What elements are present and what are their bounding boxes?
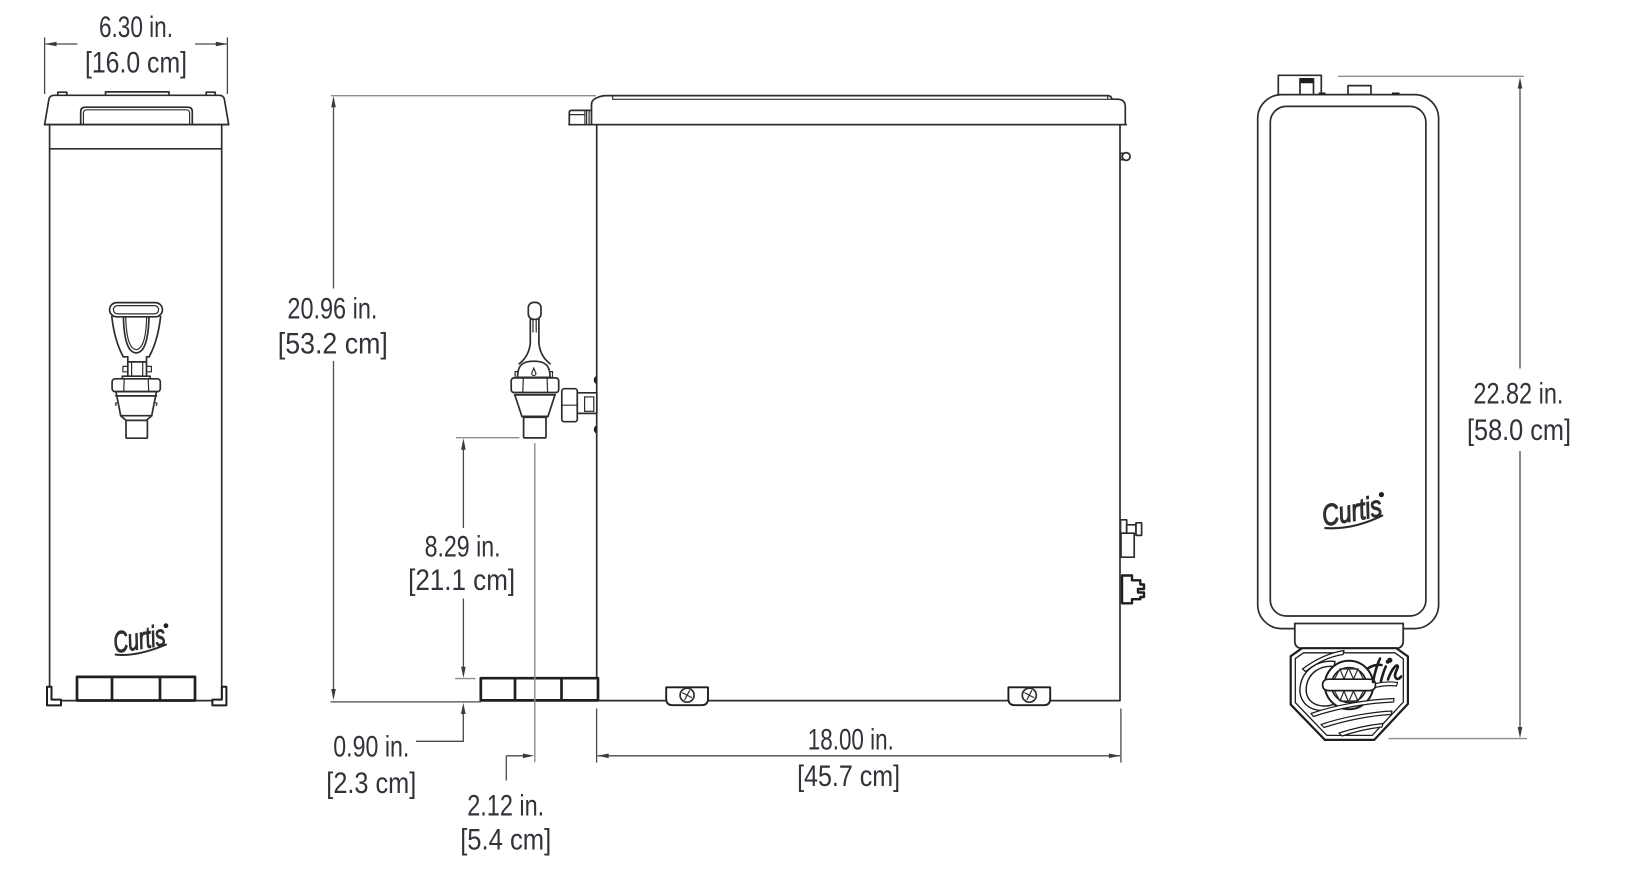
tower left foot — [47, 687, 61, 706]
rear body outer shell — [1258, 95, 1439, 629]
svg-text:[58.0 cm]: [58.0 cm] — [1467, 414, 1571, 447]
dimension 0.90 arrow and leader — [461, 703, 466, 714]
tower Curtis logo — [111, 618, 173, 660]
cabinet mounting bracket 2 — [1008, 687, 1050, 705]
dimension 20.96 top extension line — [331, 95, 596, 97]
tower lid bottom edge — [45, 124, 229, 126]
badge script tis — [1369, 659, 1402, 683]
side faucet dome — [518, 361, 551, 377]
cabinet lid — [592, 96, 1126, 125]
svg-text:18.00 in.: 18.00 in. — [808, 724, 894, 757]
rear body inner panel — [1270, 106, 1426, 616]
rear Curtis logo — [1320, 489, 1389, 533]
tower body seam — [50, 148, 222, 150]
tower bottom band — [77, 677, 195, 701]
cabinet wall nubs — [594, 376, 597, 434]
cabinet top-right screw — [1120, 153, 1123, 159]
tower body sides — [50, 125, 222, 701]
cabinet body — [597, 125, 1120, 701]
dimension 18.00 extension lines — [597, 709, 1121, 763]
side faucet lever stem — [530, 319, 539, 342]
dimension 2.12 extension line — [534, 443, 536, 762]
svg-text:2.12 in.: 2.12 in. — [467, 789, 544, 822]
svg-text:[45.7 cm]: [45.7 cm] — [797, 760, 900, 793]
tower faucet collar — [122, 376, 150, 379]
side faucet inlet pipe — [577, 393, 597, 414]
svg-text:8.29 in.: 8.29 in. — [425, 531, 501, 564]
dimension 6.30 in dimension line — [46, 43, 227, 45]
cabinet right elbow fitting — [1121, 520, 1127, 533]
dimension 2.12 line — [506, 756, 524, 781]
side faucet hex nut — [511, 378, 559, 393]
side faucet spout — [522, 415, 548, 418]
cabinet lid left tab — [569, 110, 591, 124]
rear top connector B — [1348, 86, 1371, 95]
dimension 8.29 extension line at spout — [456, 437, 520, 439]
side faucet lever knob — [528, 302, 541, 319]
badge globe ring — [1325, 661, 1373, 709]
bracket 2 screw — [1022, 688, 1036, 702]
tower faucet handle bail top — [110, 303, 163, 317]
tower faucet bail loop — [112, 317, 161, 357]
bracket 1 screw — [680, 688, 694, 702]
badge lower ribbons — [1311, 699, 1394, 717]
badge globe facets upper — [1335, 668, 1364, 679]
dimension 22.82 extension lines — [1338, 76, 1527, 738]
tower lid top tabs — [58, 92, 215, 95]
tower faucet spout — [121, 416, 152, 421]
tower lid outer — [45, 95, 229, 124]
dimension 18.00 line — [598, 755, 1121, 757]
dimension 6.30 in extension lines — [45, 38, 228, 95]
dimension 8.29 line — [462, 449, 464, 669]
rear top connector A — [1278, 75, 1321, 94]
rear badge octagon — [1291, 648, 1408, 740]
tower faucet body cone — [116, 392, 157, 416]
badge ribbon top-left — [1303, 651, 1345, 672]
rear neck — [1295, 624, 1403, 649]
side faucet dome side tabs — [515, 372, 552, 378]
svg-text:6.30 in.: 6.30 in. — [99, 11, 173, 44]
tower right foot — [212, 687, 226, 706]
dimension 20.96 line — [333, 106, 335, 690]
tower faucet stem side tabs — [123, 366, 151, 371]
svg-text:[16.0 cm]: [16.0 cm] — [85, 47, 187, 80]
svg-text:0.90 in.: 0.90 in. — [333, 731, 409, 764]
svg-text:[2.3 cm]: [2.3 cm] — [326, 767, 416, 800]
svg-text:[53.2 cm]: [53.2 cm] — [278, 328, 388, 361]
svg-text:22.82 in.: 22.82 in. — [1473, 378, 1563, 411]
badge big C swash — [1300, 661, 1344, 710]
badge globe facets lower — [1335, 691, 1364, 702]
cabinet bottom band (tower base, side) — [481, 678, 598, 700]
badge banner tail — [1376, 682, 1398, 687]
dimension 22.82 line — [1519, 88, 1521, 728]
tower lid handle recess — [81, 107, 193, 124]
svg-text:[21.1 cm]: [21.1 cm] — [408, 564, 515, 597]
ground line — [331, 701, 481, 703]
tower faucet stem block — [123, 357, 149, 376]
svg-text:20.96 in.: 20.96 in. — [287, 292, 377, 325]
cabinet right plug fitting — [1122, 576, 1144, 604]
badge banner across globe — [1323, 679, 1376, 690]
side faucet bell flare — [519, 342, 550, 364]
svg-text:[5.4 cm]: [5.4 cm] — [460, 824, 551, 857]
tower faucet hex nut — [112, 379, 160, 392]
side faucet union hex — [562, 389, 578, 422]
cabinet mounting bracket 1 — [666, 687, 708, 705]
side faucet body cone — [514, 393, 555, 417]
